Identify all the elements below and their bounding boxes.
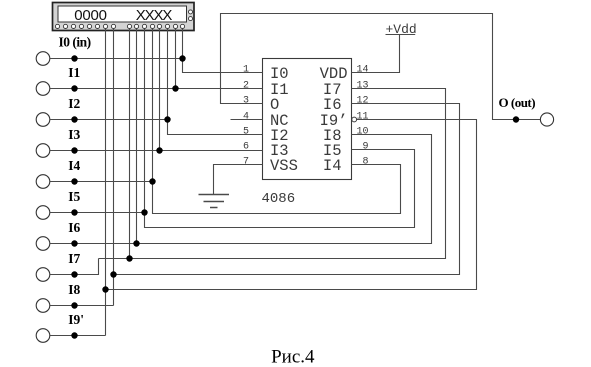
wire pin 7 to ground xyxy=(214,165,263,195)
node I7 junction xyxy=(126,255,132,261)
svg-text:1: 1 xyxy=(243,64,249,75)
wire I7 row with jog up xyxy=(50,259,99,275)
node I7 terminal dot xyxy=(71,271,77,277)
svg-text:11: 11 xyxy=(357,111,369,122)
node I4 terminal dot xyxy=(71,178,77,184)
svg-text:I6: I6 xyxy=(68,220,80,235)
svg-text:I9': I9' xyxy=(68,312,84,327)
wire I4 row xyxy=(50,181,153,183)
node I3 terminal dot xyxy=(71,147,77,153)
node I0 junction xyxy=(179,55,185,61)
wire I7 run wrap to pin 13 xyxy=(99,89,446,259)
wire I9 display drop xyxy=(105,29,107,336)
input terminal I3 xyxy=(36,144,50,158)
svg-text:5: 5 xyxy=(243,126,249,137)
node I5 terminal dot xyxy=(71,209,77,215)
node I6 terminal dot xyxy=(71,240,77,246)
node I2 terminal dot xyxy=(71,116,77,122)
node I5 junction xyxy=(141,209,147,215)
input terminal I7 xyxy=(36,268,50,282)
svg-text:9: 9 xyxy=(363,141,369,152)
svg-text:3: 3 xyxy=(243,95,249,106)
display module (digital indicator) xyxy=(53,3,195,31)
node I8 junction xyxy=(110,271,116,277)
chip U1 4086 body xyxy=(263,59,352,180)
svg-text:I3: I3 xyxy=(68,127,80,142)
input terminal I2 xyxy=(36,113,50,127)
svg-text:8: 8 xyxy=(363,156,369,167)
node I9 junction xyxy=(102,286,108,292)
node I0 terminal dot xyxy=(71,55,77,61)
svg-text:I4: I4 xyxy=(68,158,80,173)
node I1 junction xyxy=(172,85,178,91)
input terminal I0 xyxy=(36,52,50,66)
svg-text:0000: 0000 xyxy=(74,7,107,24)
wire I7 display drop xyxy=(129,29,131,259)
svg-text:4086: 4086 xyxy=(262,191,296,207)
node I8 terminal dot xyxy=(71,302,77,308)
svg-text:Рис.4: Рис.4 xyxy=(271,347,315,367)
wire I6 display drop xyxy=(136,29,138,244)
wire I6 row wrap to pin 10 xyxy=(50,135,432,244)
wire I3 row to pin 6 xyxy=(50,150,263,152)
svg-text:I7: I7 xyxy=(68,251,80,266)
wire I4 display drop and wrap to pin 8 xyxy=(153,29,401,214)
output terminal O xyxy=(540,113,553,126)
svg-text:13: 13 xyxy=(357,80,369,91)
node I2 junction xyxy=(164,116,170,122)
svg-text:VSS: VSS xyxy=(270,157,298,175)
wire I9 row xyxy=(50,335,106,337)
node I9 terminal dot xyxy=(71,332,77,338)
input terminal I6 xyxy=(36,237,50,251)
node I1 terminal dot xyxy=(71,85,77,91)
node I3 junction xyxy=(156,147,162,153)
power +Vdd xyxy=(352,22,417,73)
svg-text:I8: I8 xyxy=(68,282,80,297)
wire I8 display drop xyxy=(113,29,115,306)
svg-text:10: 10 xyxy=(357,126,369,137)
svg-text:7: 7 xyxy=(243,156,249,167)
wire I8 row xyxy=(50,305,114,307)
node I6 junction xyxy=(133,240,139,246)
input terminal I1 xyxy=(36,82,50,96)
svg-text:I5: I5 xyxy=(68,189,80,204)
svg-text:XXXX: XXXX xyxy=(136,7,173,24)
svg-text:14: 14 xyxy=(357,64,369,75)
svg-text:12: 12 xyxy=(357,95,369,106)
svg-text:I1: I1 xyxy=(68,65,80,80)
wire I0 display drop and to pin 1 xyxy=(183,29,263,73)
svg-text:2: 2 xyxy=(243,80,249,91)
pin 11 inversion bubble xyxy=(352,117,357,122)
pin 4 NC stub xyxy=(231,119,263,121)
wire I9 run wrap to pin 11 xyxy=(106,120,477,290)
svg-text:I4: I4 xyxy=(323,157,342,175)
svg-text:I0 (in): I0 (in) xyxy=(59,35,91,50)
wire I1 row to pin 2 xyxy=(50,88,263,90)
wire I8 run wrap to pin 12 xyxy=(114,104,460,275)
node output dot xyxy=(513,116,519,122)
svg-text:O (out): O (out) xyxy=(499,95,536,110)
wire I2 row xyxy=(50,119,168,121)
ground xyxy=(199,195,230,208)
svg-text:I2: I2 xyxy=(68,96,80,111)
wire I2 display drop and to pin 5 xyxy=(168,29,263,135)
wire I0 row xyxy=(50,58,183,60)
input terminal I5 xyxy=(36,206,50,220)
svg-text:4: 4 xyxy=(243,111,249,122)
wire I5 display drop and wrap to pin 9 xyxy=(145,29,415,228)
wire pin 3 to output O xyxy=(221,14,541,120)
wire I3 display drop xyxy=(159,29,161,151)
wire I5 row xyxy=(50,212,145,214)
node I4 junction xyxy=(149,178,155,184)
input terminal I8 xyxy=(36,299,50,313)
input terminal I9' xyxy=(36,329,50,343)
input terminal I4 xyxy=(36,175,50,189)
wire I1 display drop xyxy=(175,29,177,89)
